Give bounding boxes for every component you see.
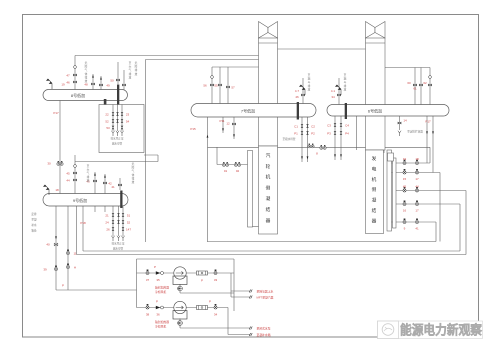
svg-text:H: H	[74, 266, 76, 270]
svg-text:40: 40	[46, 243, 50, 247]
svg-text:疏水母管: 疏水母管	[112, 142, 123, 146]
svg-text:疏水母管: 疏水母管	[113, 247, 124, 251]
svg-text:排水至正常: 排水至正常	[111, 137, 124, 141]
svg-text:C1: C1	[294, 125, 298, 129]
svg-text:18: 18	[415, 157, 419, 161]
svg-text:至定排扩容器: 至定排扩容器	[407, 130, 423, 134]
svg-text:44: 44	[66, 179, 70, 183]
svg-text:至漏斗排放: 至漏斗排放	[308, 73, 311, 91]
svg-text:至疏水母管: 至疏水母管	[283, 137, 296, 141]
svg-text:至大气排放: 至大气排放	[87, 164, 90, 182]
svg-text:7号低加: 7号低加	[241, 108, 255, 114]
svg-text:33: 33	[214, 278, 218, 282]
svg-text:61: 61	[413, 87, 417, 91]
svg-text:P15: P15	[190, 127, 196, 131]
svg-text:55: 55	[214, 84, 218, 88]
svg-text:P17: P17	[53, 111, 59, 115]
svg-text:17: 17	[415, 209, 419, 213]
svg-text:冷却风机: 冷却风机	[155, 290, 166, 294]
svg-text:C4: C4	[345, 124, 349, 128]
svg-text:21: 21	[105, 214, 109, 218]
svg-text:50: 50	[110, 79, 114, 83]
svg-text:P: P	[156, 300, 158, 304]
svg-text:34: 34	[331, 95, 335, 99]
svg-text:47: 47	[66, 74, 70, 78]
svg-text:46: 46	[66, 81, 70, 85]
svg-text:9: 9	[404, 227, 406, 231]
svg-text:轴封加热器: 轴封加热器	[155, 286, 169, 290]
svg-text:52: 52	[105, 120, 109, 124]
svg-text:轴封加热器: 轴封加热器	[155, 320, 169, 324]
svg-text:37: 37	[146, 278, 150, 282]
svg-text:P4: P4	[345, 132, 349, 136]
svg-text:23: 23	[126, 113, 130, 117]
svg-text:19: 19	[403, 157, 407, 161]
svg-text:8号低加: 8号低加	[71, 92, 85, 98]
svg-text:12: 12	[226, 122, 230, 126]
svg-text:至凝: 至凝	[31, 218, 37, 222]
svg-text:11: 11	[73, 252, 76, 256]
svg-text:49: 49	[106, 84, 110, 88]
svg-text:补水: 补水	[31, 223, 37, 227]
svg-text:P: P	[62, 284, 64, 288]
svg-text:箱处: 箱处	[31, 229, 37, 233]
svg-text:18: 18	[55, 188, 59, 192]
svg-text:P: P	[201, 279, 203, 283]
svg-text:57: 57	[231, 86, 235, 90]
svg-text:44: 44	[415, 185, 419, 189]
svg-text:35: 35	[156, 278, 160, 282]
svg-text:8: 8	[316, 152, 318, 156]
svg-text:C2: C2	[311, 125, 315, 129]
svg-text:P17: P17	[425, 120, 431, 124]
svg-text:41: 41	[415, 227, 419, 231]
svg-text:53: 53	[106, 126, 110, 130]
svg-text:能源电力新观察: 能源电力新观察	[400, 323, 482, 338]
svg-text:54: 54	[126, 120, 130, 124]
svg-text:36: 36	[156, 313, 160, 317]
svg-text:45: 45	[66, 172, 70, 176]
svg-text:34: 34	[214, 313, 218, 317]
svg-text:45: 45	[403, 185, 407, 189]
svg-text:19: 19	[61, 83, 65, 87]
svg-text:62: 62	[423, 81, 427, 85]
svg-text:至漏斗排放: 至漏斗排放	[344, 73, 347, 91]
svg-text:38: 38	[146, 313, 150, 317]
svg-text:51: 51	[127, 214, 131, 218]
svg-text:41: 41	[111, 185, 115, 189]
svg-text:26: 26	[106, 228, 110, 232]
svg-text:P3: P3	[327, 132, 331, 136]
svg-text:危险排放: 危险排放	[135, 61, 138, 76]
svg-text:48: 48	[84, 83, 88, 87]
svg-text:P: P	[209, 300, 211, 304]
svg-text:15: 15	[403, 177, 407, 181]
svg-text:至大气排放: 至大气排放	[129, 61, 132, 79]
svg-text:P1: P1	[294, 132, 298, 136]
svg-text:52: 52	[127, 221, 131, 225]
svg-text:56: 56	[203, 84, 207, 88]
svg-text:46: 46	[295, 95, 299, 99]
svg-text:危险气体排放: 危险气体排放	[85, 61, 88, 83]
svg-text:14: 14	[403, 119, 407, 123]
svg-text:60: 60	[407, 81, 411, 85]
svg-text:6号低加: 6号低加	[368, 108, 382, 114]
svg-text:17: 17	[415, 177, 419, 181]
svg-text:02: 02	[236, 169, 240, 173]
svg-text:30: 30	[47, 162, 51, 166]
svg-text:9号低加: 9号低加	[73, 197, 87, 203]
svg-text:P18: P18	[80, 221, 86, 225]
svg-text:4.1: 4.1	[331, 89, 336, 93]
svg-text:C3: C3	[327, 124, 331, 128]
svg-text:冷却风机: 冷却风机	[155, 325, 166, 329]
svg-text:定排: 定排	[31, 212, 37, 216]
svg-text:排水至正常: 排水至正常	[112, 242, 125, 246]
svg-text:24: 24	[105, 221, 109, 225]
svg-text:至闭式水泵: 至闭式水泵	[257, 327, 271, 331]
svg-text:16: 16	[403, 209, 407, 213]
svg-text:01: 01	[224, 169, 228, 173]
svg-text:P: P	[154, 265, 156, 269]
svg-text:至除氧器上水: 至除氧器上水	[257, 290, 274, 294]
svg-text:危险气体排放: 危险气体排放	[132, 162, 135, 184]
svg-text:MFT至凝汽器: MFT至凝汽器	[257, 296, 274, 300]
svg-text:147: 147	[126, 228, 131, 232]
svg-text:4.7: 4.7	[295, 89, 300, 93]
svg-text:至凝补水箱: 至凝补水箱	[257, 333, 271, 337]
svg-text:P11: P11	[219, 119, 224, 123]
svg-text:39: 39	[43, 268, 47, 272]
svg-text:22: 22	[105, 113, 109, 117]
svg-text:P2: P2	[311, 132, 315, 136]
